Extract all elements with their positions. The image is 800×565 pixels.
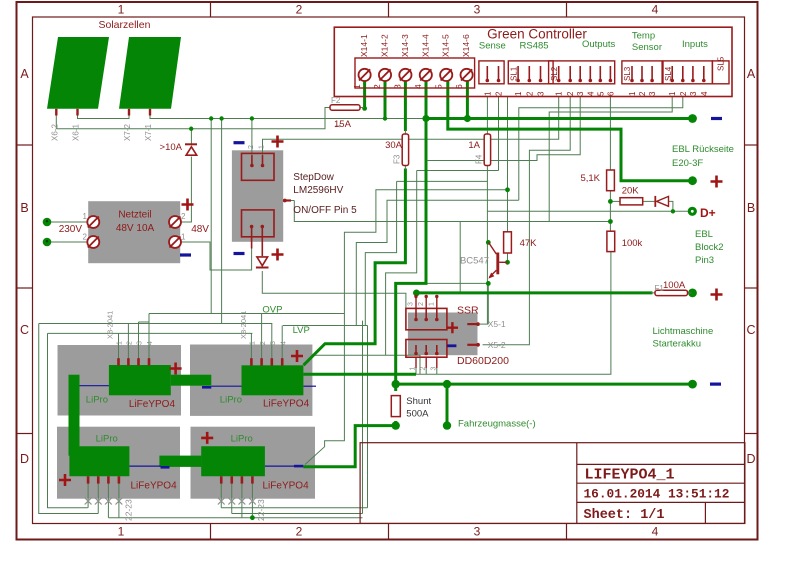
svg-text:2: 2 [248,145,255,149]
svg-text:A: A [747,67,756,81]
svg-text:F4: F4 [475,154,484,164]
svg-text:>10A: >10A [160,142,183,153]
solar panel 1 pins [55,109,57,116]
svg-text:1: 1 [668,91,677,96]
wire SL2 pin3 staircase to X14-4 net [428,97,581,161]
svg-text:2: 2 [260,341,267,345]
svg-text:500A: 500A [406,409,429,420]
svg-text:SL3: SL3 [623,66,632,81]
wire staircase LVP chain [356,200,519,325]
power supply body (Netzteil) [88,201,180,263]
SSR pin X5-2 [467,344,479,346]
battery holder body B1 [58,345,182,416]
svg-text:C: C [746,323,755,337]
svg-text:48V: 48V [191,224,209,235]
svg-text:D: D [20,452,29,466]
wire LVP horizontal line [283,325,368,327]
svg-text:3: 3 [576,91,585,96]
svg-text:Pin3: Pin3 [695,255,714,266]
battery B2 balancer pins [250,358,253,365]
svg-text:F3: F3 [393,154,402,164]
svg-text:X14-3: X14-3 [400,34,410,57]
junction lower solar bus / 48V [189,127,193,131]
no-connect crosses on B3 pins [85,498,92,505]
StepDown polarity marks [234,141,245,144]
Netzteil screw terminals [87,216,99,228]
junction minus bus / Fahrzeugmasse [443,380,451,388]
svg-text:1: 1 [118,3,125,17]
svg-text:5: 5 [433,84,443,89]
svg-text:SL2: SL2 [550,66,559,81]
terminal polarity marks right side [711,117,722,120]
svg-text:Temp: Temp [632,31,655,42]
Green Controller outline [334,27,732,96]
D+ ring terminal [688,207,697,216]
StepDown output connector box [242,210,275,237]
thick wire X14-1 to fuse F2 [363,81,366,108]
wire SL4 pin2 staircase to LVP [519,97,683,200]
svg-text:47K: 47K [520,238,538,249]
junction Fahrzeugmasse end [443,421,451,429]
svg-text:1: 1 [628,91,637,96]
wire B3 balancer pins down [87,484,89,508]
svg-text:EBL: EBL [695,229,713,240]
svg-text:4: 4 [652,3,659,17]
SL5 connector box [712,61,729,84]
wire balancer bus line to B2 pin3 [39,324,99,514]
svg-text:OVP: OVP [262,305,282,316]
diode D3 to D+ terminal [654,196,656,207]
step-down module body U2 [232,150,283,242]
svg-text:C: C [20,323,29,337]
svg-text:X8-2041: X8-2041 [239,311,248,339]
svg-text:A: A [20,67,29,81]
svg-text:BC547: BC547 [460,256,489,267]
svg-text:100k: 100k [622,238,643,249]
wire 5.1K top to controller SL2 pin6 [609,97,611,170]
wire battery2 plus sense line [314,355,420,374]
diode D1 >10A [185,143,197,145]
svg-text:2: 2 [495,91,504,96]
svg-text:X6-1: X6-1 [72,124,81,141]
svg-text:1: 1 [258,145,265,149]
svg-text:3: 3 [537,91,546,96]
wire solar series link panel1-panel2 [78,112,130,119]
fuse F2 15A [326,107,364,109]
svg-text:X14-2: X14-2 [380,34,390,57]
svg-text:LiFeYPO4: LiFeYPO4 [263,399,310,410]
svg-text:15A: 15A [334,119,352,130]
svg-text:EBL Rückseite: EBL Rückseite [672,144,734,155]
thick wire battery2 plus bus to SSR [304,373,417,376]
battery cell B1 (LiFeYPO4) [109,365,171,395]
svg-text:X7-2: X7-2 [123,124,132,141]
screw terminal X14-6 [461,69,473,81]
junction StepDown drop [250,116,254,120]
SSR input connector box [406,308,447,329]
thick wire X14-3 through fuse F3 to battery2 plus [404,81,407,131]
screw terminal X14-5 [440,69,452,81]
junction bottom balancer bus [250,515,255,520]
thick wire SSR to fuse F1 Lichtmaschine [416,291,652,294]
svg-text:Lichtmaschine: Lichtmaschine [653,326,714,337]
thick wire X14-4 to minus chain [396,81,426,391]
no-connect crosses on B4 pins [218,498,225,505]
svg-text:2: 2 [296,3,303,17]
svg-text:3: 3 [431,367,438,371]
battery B1 minus bar down to B3 [69,375,80,456]
resistor 20K [620,198,643,205]
wire B2 balancer pins up [250,333,252,358]
fuse F3 30A [404,130,406,170]
wire X5-1 riser to emitter junction [487,283,489,324]
svg-text:5,1K: 5,1K [580,173,600,184]
battery holder body B4 [191,427,316,499]
resistor 100k [607,231,615,251]
thick wire X14-5 to EBL plus terminal [448,81,693,181]
svg-text:3: 3 [137,341,144,345]
frame inner border [33,17,745,524]
junction solar bus / X14-2 [383,116,387,120]
thick wire X14-6 to solar bus [466,81,469,119]
svg-text:Inputs: Inputs [682,39,708,50]
wire Sense pin2 staircase [498,97,500,171]
screw terminal X14-2 [379,69,391,81]
svg-text:2: 2 [566,91,575,96]
wire B4 balancer pins down [220,484,222,508]
svg-text:230V: 230V [59,224,83,235]
wire diode out down to D+ line [669,201,673,211]
svg-text:LiPro: LiPro [231,434,253,445]
svg-text:E20-3F: E20-3F [672,158,703,169]
svg-text:1A: 1A [468,140,480,151]
svg-text:LiFeYPO4: LiFeYPO4 [131,481,178,492]
svg-text:LM2596HV: LM2596HV [293,185,343,196]
svg-text:LiFeYPO4: LiFeYPO4 [263,481,310,492]
wire 47K bottom to transistor collector [507,253,509,262]
svg-text:X14-4: X14-4 [420,34,430,57]
screw terminal X14-3 [399,69,411,81]
SL4 connector box [663,61,712,84]
svg-text:X5-1: X5-1 [488,319,506,329]
wire battery loop right verticals [367,326,369,508]
svg-text:Fahrzeugmasse(-): Fahrzeugmasse(-) [458,419,536,430]
svg-text:6: 6 [606,91,615,96]
svg-text:1: 1 [514,91,523,96]
svg-text:Outputs: Outputs [582,39,616,50]
svg-text:4: 4 [413,84,423,89]
wire solar bus A from panel2 pin1 [150,112,426,119]
svg-text:100A: 100A [663,280,686,291]
svg-text:D: D [746,452,755,466]
svg-text:Block2: Block2 [695,242,724,253]
svg-text:X14-1: X14-1 [359,34,369,57]
svg-text:2: 2 [127,341,134,345]
battery B3 balancer pins [87,476,90,483]
svg-text:4: 4 [586,91,595,96]
svg-text:1: 1 [352,84,362,89]
junction OVP drop [209,116,213,120]
battery cell B3 (LiFeYPO4) [69,446,129,476]
svg-text:2: 2 [679,91,688,96]
svg-text:4: 4 [652,525,659,539]
svg-text:Green Controller: Green Controller [487,27,587,42]
svg-text:Shunt: Shunt [406,396,431,407]
svg-text:LVP: LVP [293,325,310,336]
svg-text:Sense: Sense [479,41,506,52]
junction LVP drop [219,116,223,120]
svg-text:X5-2: X5-2 [488,340,506,350]
svg-text:2: 2 [83,233,88,242]
svg-text:22-23: 22-23 [124,499,134,521]
battery B1 balancer pins [117,358,120,365]
junction solar bus / X14-4 [422,115,429,122]
svg-text:5: 5 [596,91,605,96]
svg-text:6: 6 [454,84,464,89]
SSR pin X5-1 [467,323,479,325]
svg-text:X14-5: X14-5 [441,34,451,57]
svg-text:20K: 20K [622,186,640,197]
svg-text:4: 4 [280,341,287,345]
junction BC547 base [486,240,491,245]
junction minus bus / shunt top [392,380,400,388]
svg-text:4: 4 [147,341,154,345]
bus battery1 tab minus mark [202,386,211,389]
svg-text:SSR: SSR [457,305,479,317]
svg-text:2: 2 [525,91,534,96]
svg-text:LiFeYPO4: LiFeYPO4 [129,399,176,410]
svg-text:LIFEYPO4_1: LIFEYPO4_1 [585,467,675,484]
junction shunt bottom [392,421,400,429]
svg-text:B: B [747,201,755,215]
terminal minus bus end [688,380,697,389]
svg-text:Solarzellen: Solarzellen [99,19,151,31]
bus battery4 to thick minus [265,465,294,467]
terminal Lichtmaschine plus [688,289,697,298]
battery holder body B3 [57,427,180,499]
solar panel 1 [47,37,109,109]
fuse F4 1A [486,130,488,170]
wire bottom balancer long bus 22-23 [108,517,362,519]
wire D+ line to terminal [673,210,689,212]
wire D+ horizontal line [487,210,673,212]
svg-text:16.01.2014 13:51:12: 16.01.2014 13:51:12 [584,487,730,502]
svg-text:1: 1 [410,367,417,371]
Netzteil plus minus [182,199,194,211]
svg-text:Sensor: Sensor [632,42,662,53]
terminal EBL minus [688,114,697,123]
thick wire shunt bottom from battery4 minus [303,426,395,467]
svg-text:22-23: 22-23 [256,499,266,521]
wire divider chain 5.1K-100k [609,191,611,232]
svg-text:1: 1 [181,233,186,242]
SL3 connector box [622,61,662,84]
resistor 5.1K [607,170,615,191]
title block sheet cell divider [704,502,706,523]
svg-text:LiPro: LiPro [86,395,108,406]
wire BC547 base from Sense pin1 vertical [486,97,488,130]
thick wire main minus bus to EBL block terminal [396,383,693,386]
wire LVP drop from bus A [221,119,223,324]
svg-text:4: 4 [700,91,709,96]
battery B3 tab to B4 [159,456,201,467]
wire 48V+ from Netzteil pin2 up to lower solar bus [190,129,192,144]
svg-text:F2: F2 [331,96,341,105]
svg-text:2: 2 [181,212,186,221]
svg-text:1: 1 [555,91,564,96]
screw terminal X14-4 [420,69,432,81]
junction SSR bus left end [413,290,420,297]
svg-text:LiPro: LiPro [220,395,242,406]
wire staircase middle chain to F4 net [397,180,488,182]
junction fuse F2 / X14-1 [362,106,367,111]
bus battery3 to link tab [129,465,160,467]
title block row lines [577,463,745,465]
svg-text:X14-6: X14-6 [461,34,471,57]
svg-text:1: 1 [483,91,492,96]
title block divider vertical [576,443,578,524]
SSR module body [408,313,478,356]
wire StepDown + pin to line up right [263,97,559,155]
svg-text:1: 1 [83,212,88,221]
svg-text:DD60D200: DD60D200 [457,355,509,367]
svg-text:1: 1 [117,341,124,345]
battery cell B2 (LiFeYPO4) [242,365,304,395]
wire B1 balancer pins up [118,333,120,358]
transistor BC547 Q1 [496,253,499,275]
svg-text:1: 1 [429,302,436,306]
SL1 connector box [508,61,553,84]
svg-text:2: 2 [638,91,647,96]
wire X5-2 to controller SL1 pin2 [483,97,571,345]
wire battery4 minus sense staircase [305,97,508,465]
SSR polarity [447,322,458,333]
junction emitter / X5-1 riser [486,281,491,286]
fuse F1 100A [651,292,692,294]
junction sense line / 47K riser [505,187,510,192]
bus battery1 to battery2 [211,385,241,387]
wire emitter junction to thick corner [427,282,488,284]
wire OVP drop from bus A [210,119,212,314]
solar panel 2 [119,37,181,109]
thick wire Fahrzeugmasse stub [446,384,449,426]
wire balancer bus line to B2 pin1 [48,333,88,507]
svg-text:RS485: RS485 [520,41,549,52]
wire solar panel1 pin1 down to lower bus [55,112,57,129]
resistor 47K [504,232,512,253]
svg-text:3: 3 [393,84,403,89]
StepDown input connector box [242,153,275,180]
wire EBL D+ stub [209,241,211,243]
svg-text:48V 10A: 48V 10A [116,223,155,234]
svg-text:2: 2 [372,84,382,89]
svg-text:X8-2041: X8-2041 [106,311,115,339]
svg-text:D+: D+ [700,206,716,220]
wire 230V input L [50,221,89,223]
svg-text:30A: 30A [385,140,403,151]
wire 20K from divider dot [610,200,620,202]
Sense connector box [479,61,504,84]
battery cell B4 (LiFeYPO4) [201,446,265,476]
zener diode at StepDown output [257,257,268,266]
battery plus marks [170,363,182,375]
solar panel 2 pins [128,109,130,116]
StepDown ON/OFF pin 5 [283,199,291,201]
svg-text:1: 1 [118,525,125,539]
wire SSR control vertical from ON/OFF line [459,222,461,293]
svg-text:2: 2 [418,302,425,306]
svg-text:X7-1: X7-1 [144,124,153,141]
wire 100k bottom down to SSR output bus [416,252,611,375]
shunt resistor [391,396,400,417]
svg-text:B: B [20,201,28,215]
frame column/row tick marks [210,2,212,17]
battery B1 positive tab to B2 [171,375,212,386]
wire SL4 pin1 staircase to ON/OFF line [549,97,672,222]
SSR output connector box [406,340,447,358]
wire SSR output pins down to bus [415,368,417,374]
thick wire solar bus to EBL minus terminal [426,117,693,120]
wire 230V input N [50,241,89,243]
svg-text:SL5: SL5 [717,56,726,71]
wire Netzteil pin1 minus to StepDown - input [179,242,252,270]
wire lower solar bus to fuse F2 [56,108,330,129]
svg-text:ON/OFF Pin 5: ON/OFF Pin 5 [293,205,357,216]
junction solar bus / X14-6 [464,115,471,122]
svg-text:2: 2 [420,367,427,371]
battery B4 balancer pins [220,476,223,483]
wire StepDown ON/OFF pin5 net [294,201,610,222]
svg-text:3: 3 [270,341,277,345]
junction divider 20K tap [608,199,613,204]
wire OVP horizontal line [149,313,344,315]
svg-text:1: 1 [250,341,257,345]
svg-text:3: 3 [648,91,657,96]
wire 47K top branch from sense dot [507,190,509,232]
svg-text:3: 3 [689,91,698,96]
230V input terminals [43,218,52,227]
bus battery4 minus mark [294,465,303,468]
svg-text:Sheet: 1/1: Sheet: 1/1 [584,508,665,523]
junction D+ diode [671,209,675,213]
wire bottom balancer bus right segments [221,507,367,509]
wire StepDown output zener to SSR coil line [262,271,406,308]
bus battery2 right stub [304,385,317,387]
junction 47K / collector [505,260,510,265]
wire StepDown + input drop from bus A [251,119,253,156]
bus battery1 minus link [80,385,109,387]
svg-text:3: 3 [474,525,481,539]
title block outline [360,443,745,524]
svg-text:SL1: SL1 [510,66,519,81]
terminal EBL plus [688,176,697,185]
thick wire X14-2 to solar bus [384,81,387,119]
X14 terminal strip box [355,58,475,88]
svg-text:X6-2: X6-2 [50,124,59,141]
junction divider ON/OFF tap [608,219,613,224]
svg-text:LiPro: LiPro [96,434,118,445]
bus battery3 tab minus mark [161,466,170,469]
svg-text:Netzteil: Netzteil [118,210,151,221]
svg-text:2: 2 [296,525,303,539]
svg-text:Starterakku: Starterakku [653,339,702,350]
SL2 connector box [549,61,615,84]
screw terminal X14-1 [359,69,371,81]
battery holder body B2 [190,345,312,416]
svg-text:StepDow: StepDow [293,172,334,183]
svg-text:3: 3 [408,302,415,306]
svg-text:3: 3 [474,3,481,17]
